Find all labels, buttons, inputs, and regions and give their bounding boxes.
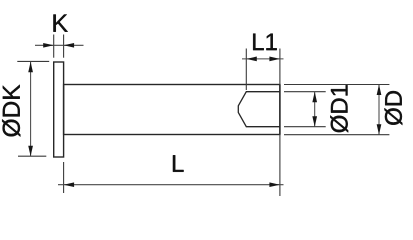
K dimension line <box>35 44 84 46</box>
D arrow up (inside, pointing up) <box>377 85 382 96</box>
L extension line (below part) <box>279 135 281 197</box>
L arrow right (inside, pointing right) <box>269 182 280 187</box>
L1 extension line left <box>245 49 247 91</box>
L dimension line <box>58 184 284 186</box>
pin head outline <box>54 62 64 157</box>
K arrow left (outside, pointing right) <box>43 43 54 48</box>
internal bore with drill point <box>238 92 280 127</box>
D dimension line <box>378 85 380 135</box>
L extension line left <box>63 162 65 193</box>
L1 arrow right (inside, pointing right) <box>269 57 280 62</box>
label L1 <box>253 34 277 51</box>
D1 dimension line <box>314 92 316 127</box>
K extension line left <box>53 35 55 58</box>
L1 dimension line <box>242 58 284 60</box>
L arrow left (inside, pointing left) <box>64 182 75 187</box>
L1 / L shared extension line (above part) <box>279 49 281 85</box>
pin body (shank) outline <box>64 85 280 135</box>
label ØD1 (rotated) <box>330 85 348 132</box>
DK extension line bottom <box>18 155 46 157</box>
D arrow down (inside, pointing down) <box>377 124 382 135</box>
D extension line bottom <box>284 134 389 136</box>
K extension line right <box>63 35 65 58</box>
label L <box>173 155 184 172</box>
DK arrow down <box>28 146 33 157</box>
D1 extension line bottom <box>284 126 326 128</box>
DK arrow up <box>28 62 33 73</box>
D1 arrow up (inside, pointing up) <box>312 92 317 103</box>
DK extension line top <box>17 60 49 62</box>
pin end face edge <box>279 85 281 135</box>
K arrow right (outside, pointing left) <box>64 43 75 48</box>
D1 extension line top <box>284 91 326 93</box>
label ØD (rotated) <box>385 91 403 125</box>
D1 arrow down (inside, pointing down) <box>312 116 317 127</box>
D extension line top <box>284 84 389 86</box>
L1 arrow left (inside, pointing left) <box>246 57 256 62</box>
label ØDK (rotated) <box>2 85 20 137</box>
label K <box>53 15 67 32</box>
DK dimension line <box>30 62 32 156</box>
